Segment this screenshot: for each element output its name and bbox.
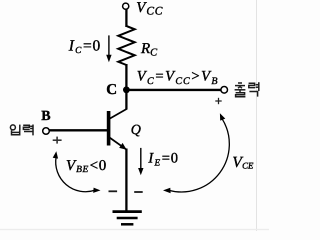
faint page edge line right <box>256 0 258 231</box>
plus sign at input <box>53 137 62 144</box>
wire VCC to resistor <box>125 9 127 27</box>
terminal output <box>221 87 228 94</box>
wire node C to output terminal <box>126 89 221 91</box>
resistor RC <box>118 26 134 65</box>
arc arrow VCE <box>163 113 229 193</box>
wire collector vertical <box>125 88 127 110</box>
ground <box>113 212 142 225</box>
label input (Korean 입력) <box>10 125 33 136</box>
transistor Q1: collector lead <box>110 109 128 119</box>
wire input to base <box>49 129 107 131</box>
arc arrow VBE <box>53 151 101 193</box>
label output (Korean 출력) <box>235 82 259 97</box>
plus sign at output <box>215 98 221 104</box>
wire emitter vertical <box>125 149 127 211</box>
svg-text:IC=0: IC=0 <box>68 38 101 57</box>
terminal VCC <box>123 3 129 9</box>
arrow IE (down) <box>138 148 143 175</box>
minus sign right of emitter <box>134 191 143 193</box>
svg-text:B: B <box>41 109 50 124</box>
svg-text:C: C <box>106 82 117 98</box>
transistor Q1: emitter lead with arrow <box>110 138 127 150</box>
transistor Q1: base bar <box>107 111 111 146</box>
node C (junction dot) <box>123 86 130 93</box>
wire resistor to node C <box>125 64 127 91</box>
faint page edge line bottom <box>0 229 269 231</box>
minus sign left of emitter <box>109 190 118 192</box>
arrow IC (down) <box>106 35 111 62</box>
svg-text:Q: Q <box>131 123 141 138</box>
svg-text:IE=0: IE=0 <box>147 151 178 169</box>
terminal input B <box>43 128 50 135</box>
